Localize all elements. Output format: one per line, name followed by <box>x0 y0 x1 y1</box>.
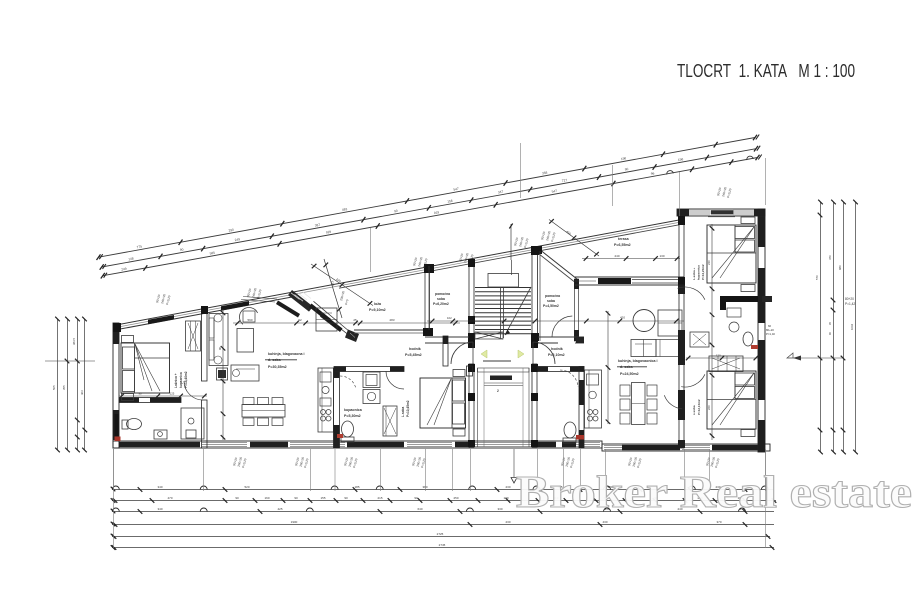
bottom sill annotation 1 <box>232 456 247 468</box>
pomocna right corridor wall <box>538 337 584 343</box>
left vertical dimension lines <box>45 317 95 453</box>
svg-text:P=1,40: P=1,40 <box>766 332 775 336</box>
apt4 bed bottom nightstand <box>741 430 755 437</box>
title text <box>677 61 855 81</box>
apt3 dining table <box>632 383 646 425</box>
apt2 washer <box>363 372 380 388</box>
dimension chain middle <box>100 146 761 270</box>
svg-text:547: 547 <box>453 187 459 192</box>
bed apt1 pillows <box>123 343 135 393</box>
interior dim line hodnik <box>427 316 684 324</box>
svg-text:90: 90 <box>294 496 298 500</box>
svg-text:P+0: P+0 <box>344 299 349 306</box>
apt2 washing machine <box>363 390 380 404</box>
shaft inner lines <box>478 368 530 447</box>
apt4 bottom label <box>692 399 701 415</box>
stair under-cut brace <box>475 332 503 339</box>
svg-text:102: 102 <box>447 316 452 320</box>
svg-text:P=5,45m2: P=5,45m2 <box>405 353 422 357</box>
svg-text:80+20: 80+20 <box>845 297 854 301</box>
svg-text:P=14,20m2: P=14,20m2 <box>701 264 705 280</box>
apt4 bed top nightstand <box>741 217 755 292</box>
facade sill annotation 7 <box>716 186 732 198</box>
entry arrow right <box>518 350 524 358</box>
svg-text:P=24,50m2: P=24,50m2 <box>620 372 639 376</box>
svg-text:hodnik: hodnik <box>409 347 421 351</box>
apt1 bath radiator <box>115 414 121 441</box>
svg-text:90: 90 <box>138 392 142 396</box>
apt2 corridor wall <box>334 367 404 372</box>
apt1 bedroom dim <box>119 392 207 399</box>
apt1 armchair <box>316 308 337 331</box>
loggia width dimension <box>324 259 350 318</box>
bottom dim line 6 <box>112 543 775 550</box>
apt3 wc wall <box>579 367 584 449</box>
apt2 room label <box>401 400 410 417</box>
bottom dims left ticks <box>111 487 116 550</box>
pomocna right door arc <box>552 316 572 337</box>
bottom sill annotation 4 <box>411 456 426 468</box>
apt3 round table <box>633 310 655 332</box>
svg-text:2: 2 <box>497 389 499 393</box>
apt2 wardrobe <box>383 406 397 436</box>
svg-text:P=4,50m2: P=4,50m2 <box>543 304 559 308</box>
svg-text:90: 90 <box>180 247 184 252</box>
apt4 wardrobe <box>709 356 743 372</box>
svg-text:90: 90 <box>414 496 418 500</box>
apt1 living label <box>265 352 305 369</box>
bottom wall windows <box>119 442 758 450</box>
watermark <box>516 467 912 517</box>
apt1 bedroom door arc <box>184 381 203 401</box>
terrace floor wall <box>575 277 684 285</box>
facade sill annotation 2 <box>246 287 262 299</box>
loggia right wall <box>423 264 434 336</box>
apt4 vertical dim <box>707 224 714 440</box>
terrace label <box>614 237 631 247</box>
svg-text:240: 240 <box>707 260 711 265</box>
svg-text:156: 156 <box>678 157 684 162</box>
svg-text:120: 120 <box>716 354 721 358</box>
apt1 side table <box>217 368 228 380</box>
stair treads <box>475 288 531 334</box>
facade sill annotation 3 <box>412 256 428 268</box>
pomocna soba walls <box>425 266 469 343</box>
slanted wall to terrace <box>534 246 577 282</box>
svg-text:425: 425 <box>277 507 282 511</box>
apt1 tv bench <box>241 297 300 318</box>
svg-text:L.soba +: L.soba + <box>692 267 696 280</box>
svg-text:P=14,40m2: P=14,40m2 <box>184 371 188 388</box>
slanted facade parapet <box>116 220 679 330</box>
apt2 bath door dashed <box>340 376 356 389</box>
svg-text:470: 470 <box>828 255 832 260</box>
bottom sill annotation 7 <box>705 456 720 468</box>
apt2 door arc <box>386 371 404 389</box>
apt3 terrace door arc <box>664 395 682 409</box>
facade window bar 2 <box>221 301 249 311</box>
apt2 hodnik label <box>405 347 422 357</box>
apt1 interior dim <box>233 318 460 325</box>
apt4 bed bottom <box>707 371 756 429</box>
right vertical dimension lines <box>787 200 858 455</box>
svg-text:156: 156 <box>621 156 627 161</box>
svg-text:kupaonica: kupaonica <box>179 372 183 388</box>
apt1 kitchen wall <box>334 368 340 448</box>
svg-text:727: 727 <box>561 178 567 183</box>
pomocna right room left wall <box>539 251 541 341</box>
svg-text:loža: loža <box>374 302 382 306</box>
pomocna right room right wall <box>574 279 579 341</box>
apt3 hodnik door dashed <box>560 370 578 387</box>
extension lines bottom <box>114 449 766 548</box>
svg-text:P=30,35m2: P=30,35m2 <box>268 365 287 369</box>
apt1 room label rotated <box>174 371 188 388</box>
right exterior wall <box>758 209 765 452</box>
apt1 bedroom-living wall <box>201 306 208 448</box>
svg-text:148: 148 <box>128 256 134 261</box>
apt2 bed nightstands <box>453 370 465 437</box>
stair center wall <box>501 287 504 338</box>
loggia hatched wall <box>288 290 313 312</box>
apt3 sofa <box>631 340 682 357</box>
svg-text:90: 90 <box>625 167 629 172</box>
svg-text:kuhinja, blagovaonica i: kuhinja, blagovaonica i <box>618 359 658 363</box>
apt1 vertical dim <box>218 309 225 440</box>
apt4 top label <box>692 264 705 280</box>
svg-text:590: 590 <box>247 318 252 322</box>
svg-text:570: 570 <box>815 275 819 280</box>
svg-text:463: 463 <box>80 390 84 395</box>
svg-text:pomoćna: pomoćna <box>435 292 450 296</box>
bottom sill annotation 6 <box>627 456 642 468</box>
entry door arc left <box>451 342 473 364</box>
apt2 toilet <box>341 421 354 442</box>
svg-text:505: 505 <box>52 385 56 390</box>
apt4 bed top <box>707 225 756 283</box>
axis extension line <box>509 224 512 261</box>
bottom dim line 5 <box>112 532 771 539</box>
svg-text:340: 340 <box>157 507 162 511</box>
right block left wall <box>678 216 685 286</box>
dimension chain lower <box>101 155 762 279</box>
apt4 bath wall <box>720 296 758 310</box>
apt3 corridor bottom wall <box>538 367 584 372</box>
svg-text:230: 230 <box>330 280 335 286</box>
apt2 right wall <box>467 366 473 376</box>
svg-text:355: 355 <box>62 385 66 390</box>
svg-text:2745: 2745 <box>439 543 446 547</box>
apt1 shower <box>181 408 204 439</box>
stair left wall <box>468 259 475 341</box>
apt1 bedroom bottom wall <box>119 398 181 403</box>
stair bottom walls <box>468 341 538 348</box>
terrace width dimension <box>549 219 599 256</box>
svg-text:470: 470 <box>167 496 172 500</box>
svg-text:420: 420 <box>620 316 625 320</box>
bottom sill annotation 3 <box>343 456 358 468</box>
svg-text:775: 775 <box>136 244 142 249</box>
right side note <box>762 296 855 306</box>
balcony door in top wall <box>708 210 735 217</box>
apt2 corridor right wall <box>443 336 448 366</box>
svg-text:155: 155 <box>320 496 325 500</box>
svg-text:P=6,20m2: P=6,20m2 <box>433 302 449 306</box>
svg-text:347: 347 <box>498 190 504 195</box>
apt1 armchair round <box>239 308 257 325</box>
apt3 red mark <box>576 435 584 440</box>
bottom sill annotation 2 <box>294 456 309 468</box>
svg-text:430: 430 <box>602 520 607 524</box>
apt1 dining chairs bottom <box>243 418 283 426</box>
stair right wall <box>531 246 539 341</box>
svg-text:520: 520 <box>244 485 249 489</box>
shaft right wall <box>531 364 538 447</box>
svg-text:125: 125 <box>170 392 175 396</box>
svg-text:L.soba: L.soba <box>401 407 405 417</box>
bottom dim line 1 <box>112 485 774 492</box>
apt1 sofa L <box>209 314 228 366</box>
svg-text:290: 290 <box>228 228 234 233</box>
svg-text:P=12,10m2: P=12,10m2 <box>697 399 701 415</box>
pomocna soba right label <box>543 294 560 308</box>
svg-text:35: 35 <box>828 322 832 325</box>
svg-text:Ložnica +: Ložnica + <box>174 373 178 388</box>
axis bubble chain right 2 <box>747 156 754 160</box>
apt4 party wall <box>678 285 685 448</box>
apt1 bath item <box>154 430 167 439</box>
svg-text:pomoćna: pomoćna <box>545 294 560 298</box>
shaft step bar <box>484 376 523 394</box>
loggia area label <box>369 302 386 312</box>
svg-text:90: 90 <box>218 346 222 350</box>
svg-text:96: 96 <box>650 171 654 176</box>
svg-text:215: 215 <box>377 496 382 500</box>
svg-text:soba: soba <box>437 297 445 301</box>
svg-text:370: 370 <box>716 520 721 524</box>
svg-text:kuhinja, blagovaona i: kuhinja, blagovaona i <box>268 352 305 356</box>
svg-text:380: 380 <box>422 485 427 489</box>
terrace dim <box>582 254 680 261</box>
apt1 coffee table <box>237 329 254 353</box>
entry door arc right <box>533 342 555 364</box>
svg-text:P=6,55m2: P=6,55m2 <box>614 243 631 247</box>
left exterior wall <box>113 323 119 448</box>
apt4 door arc bottom <box>681 374 705 387</box>
bed apt1 creases <box>135 344 169 391</box>
svg-text:kupaonica: kupaonica <box>344 408 363 412</box>
svg-text:240: 240 <box>614 254 619 258</box>
apt3 cabinet <box>658 310 682 336</box>
pomocna soba left label <box>433 292 450 306</box>
svg-text:25: 25 <box>353 318 357 322</box>
svg-text:283: 283 <box>389 318 394 322</box>
apt1 bath toilet <box>122 419 142 430</box>
bottom dim line 3 <box>112 507 774 514</box>
top wall of right block <box>677 209 765 216</box>
svg-text:soba: soba <box>547 299 555 303</box>
loggia corner block <box>345 330 359 343</box>
svg-text:249: 249 <box>121 267 127 272</box>
svg-text:160: 160 <box>264 496 269 500</box>
apt4 bath sidetext <box>766 324 775 336</box>
svg-text:585: 585 <box>209 251 215 256</box>
landing threshold line <box>483 360 511 362</box>
apt3 dining chairs left <box>620 385 630 424</box>
apt3 vertical dim <box>606 311 611 424</box>
bottom dim line 4 <box>112 520 774 527</box>
svg-text:100: 100 <box>503 496 508 500</box>
svg-text:383.5: 383.5 <box>72 338 76 345</box>
apt3 label <box>617 359 658 376</box>
svg-text:929: 929 <box>326 230 332 235</box>
svg-text:s.soba: s.soba <box>692 405 696 415</box>
shaft left wall <box>468 364 475 447</box>
svg-text:kupaonica: kupaonica <box>697 265 701 280</box>
apt1 kitchen counter <box>318 368 334 432</box>
svg-text:hodnik: hodnik <box>551 347 563 351</box>
svg-text:220: 220 <box>707 405 711 410</box>
bottom dim line 2 <box>112 496 776 503</box>
bed apt1 frame <box>121 343 170 393</box>
svg-text:250: 250 <box>453 496 458 500</box>
svg-text:230: 230 <box>505 520 510 524</box>
axis bubble chain right 1 <box>667 171 674 175</box>
svg-text:230: 230 <box>505 485 510 489</box>
svg-text:340: 340 <box>157 485 162 489</box>
apt3 toilet <box>563 422 576 443</box>
apt2 kupaonica label <box>344 408 363 418</box>
apt4 door arc top <box>678 287 705 300</box>
svg-text:P=9,10m2: P=9,10m2 <box>369 308 386 312</box>
apt4 bath fixtures <box>727 308 758 349</box>
svg-text:919: 919 <box>434 210 440 215</box>
svg-text:980: 980 <box>838 265 842 270</box>
entry arrow left <box>481 350 487 358</box>
apt3 dining chairs right <box>647 385 657 424</box>
svg-text:185: 185 <box>354 485 359 489</box>
apt2 red mark <box>337 434 343 438</box>
apt1 dining table <box>242 405 285 418</box>
apt3 hodnik label <box>548 347 565 357</box>
bottom sill annotation 5 <box>560 456 575 468</box>
svg-text:90: 90 <box>344 496 348 500</box>
facade sill annotation 4 <box>458 252 474 264</box>
svg-text:P=5,30m2: P=5,30m2 <box>344 414 361 418</box>
extension lines top <box>371 143 766 272</box>
svg-text:TLOCRT 1. KATA M 1 : 100: TLOCRT 1. KATA M 1 : 100 <box>677 61 855 81</box>
svg-text:1900: 1900 <box>291 520 298 524</box>
svg-text:483: 483 <box>342 207 348 212</box>
facade corner block <box>113 323 121 332</box>
svg-text:249: 249 <box>234 237 240 242</box>
svg-text:terasa: terasa <box>618 237 630 241</box>
facade sill annotation 5 <box>513 236 529 248</box>
stair landing <box>488 274 519 288</box>
apt1 sofa 2 <box>231 365 259 381</box>
apt1 dining chairs top <box>243 398 283 405</box>
svg-text:90: 90 <box>235 496 239 500</box>
bottom exterior wall <box>113 441 770 451</box>
bed apt1 nightstands <box>122 336 134 401</box>
svg-text:358: 358 <box>542 171 548 176</box>
svg-text:90: 90 <box>828 332 832 335</box>
svg-text:456: 456 <box>565 230 572 236</box>
svg-text:130: 130 <box>659 254 664 258</box>
svg-text:P=10,45m2: P=10,45m2 <box>406 400 410 417</box>
svg-text:1062: 1062 <box>850 323 854 330</box>
facade window bar 1 <box>148 315 174 324</box>
apt1 wardrobe <box>186 321 201 351</box>
svg-text:387: 387 <box>314 223 320 228</box>
svg-text:90: 90 <box>394 209 398 214</box>
svg-text:92: 92 <box>298 318 302 322</box>
facade sill annotation 6 <box>540 230 556 242</box>
facade sill annotation 1 <box>155 293 171 305</box>
svg-text:640: 640 <box>417 507 422 511</box>
axis flag below shaft <box>511 449 517 483</box>
svg-text:230: 230 <box>335 277 342 283</box>
apt2 bed <box>420 378 466 428</box>
svg-text:330: 330 <box>497 507 502 511</box>
apt3 kitchen counter <box>585 370 602 428</box>
loggia diagonal dimension <box>311 264 373 306</box>
loggia slant wall <box>309 301 350 334</box>
dimension chain upper <box>97 135 760 261</box>
svg-text:547: 547 <box>551 189 557 194</box>
svg-text:2725: 2725 <box>437 532 444 536</box>
apt4 hall dim <box>686 354 758 361</box>
stair direction line <box>505 260 531 335</box>
shaft mid lines <box>484 368 523 447</box>
svg-text:P=1,42: P=1,42 <box>845 302 855 306</box>
svg-text:Broker Real estate: Broker Real estate <box>516 467 912 517</box>
apt4 shelf <box>690 332 709 347</box>
loggia bottom wall <box>354 330 429 333</box>
svg-text:156: 156 <box>447 199 453 204</box>
svg-text:P=2,10m2: P=2,10m2 <box>548 353 565 357</box>
